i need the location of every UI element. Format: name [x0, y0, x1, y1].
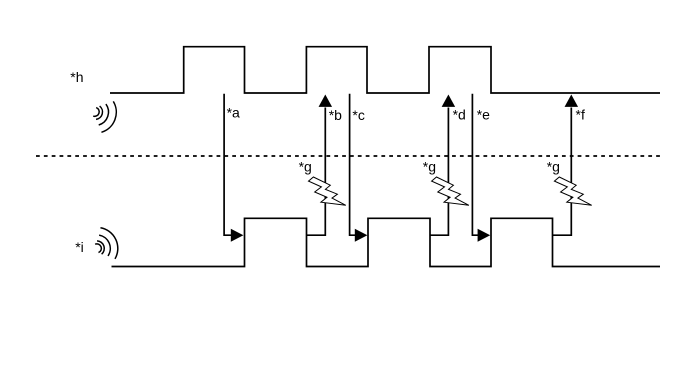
waveform i (bottom signal) — [112, 218, 661, 266]
arrow e (down from h to i rising edge) — [472, 94, 490, 242]
svg-text:*c: *c — [352, 107, 364, 123]
svg-text:*h: *h — [70, 69, 83, 85]
svg-text:*i: *i — [75, 239, 84, 255]
svg-text:*g: *g — [299, 158, 312, 174]
svg-text:*f: *f — [576, 107, 585, 123]
svg-text:*a: *a — [227, 105, 240, 121]
svg-text:*g: *g — [547, 158, 560, 174]
waveform h (top signal) — [110, 47, 660, 93]
radio waves icon top (transmitter h) — [93, 101, 116, 132]
arrow b (up from i falling edge to h) — [307, 95, 333, 236]
svg-text:*e: *e — [477, 107, 490, 123]
svg-text:*d: *d — [453, 107, 466, 123]
arrow f (up from i falling edge to h) — [553, 95, 579, 236]
arrow a (down from h to i rising edge) — [224, 94, 243, 242]
svg-text:*b: *b — [329, 107, 342, 123]
svg-text:*g: *g — [423, 158, 436, 174]
radio waves icon bottom (receiver i) — [95, 228, 118, 259]
dashed boundary line — [36, 155, 660, 157]
arrow c (down from h to i rising edge) — [350, 94, 368, 242]
lightning bolt g3 (interference on arrow f) — [554, 177, 591, 205]
arrow d (up from i falling edge to h) — [430, 95, 455, 236]
lightning bolt g2 (interference on arrow d) — [432, 177, 469, 205]
lightning bolt g1 (interference on arrow b) — [309, 177, 346, 205]
